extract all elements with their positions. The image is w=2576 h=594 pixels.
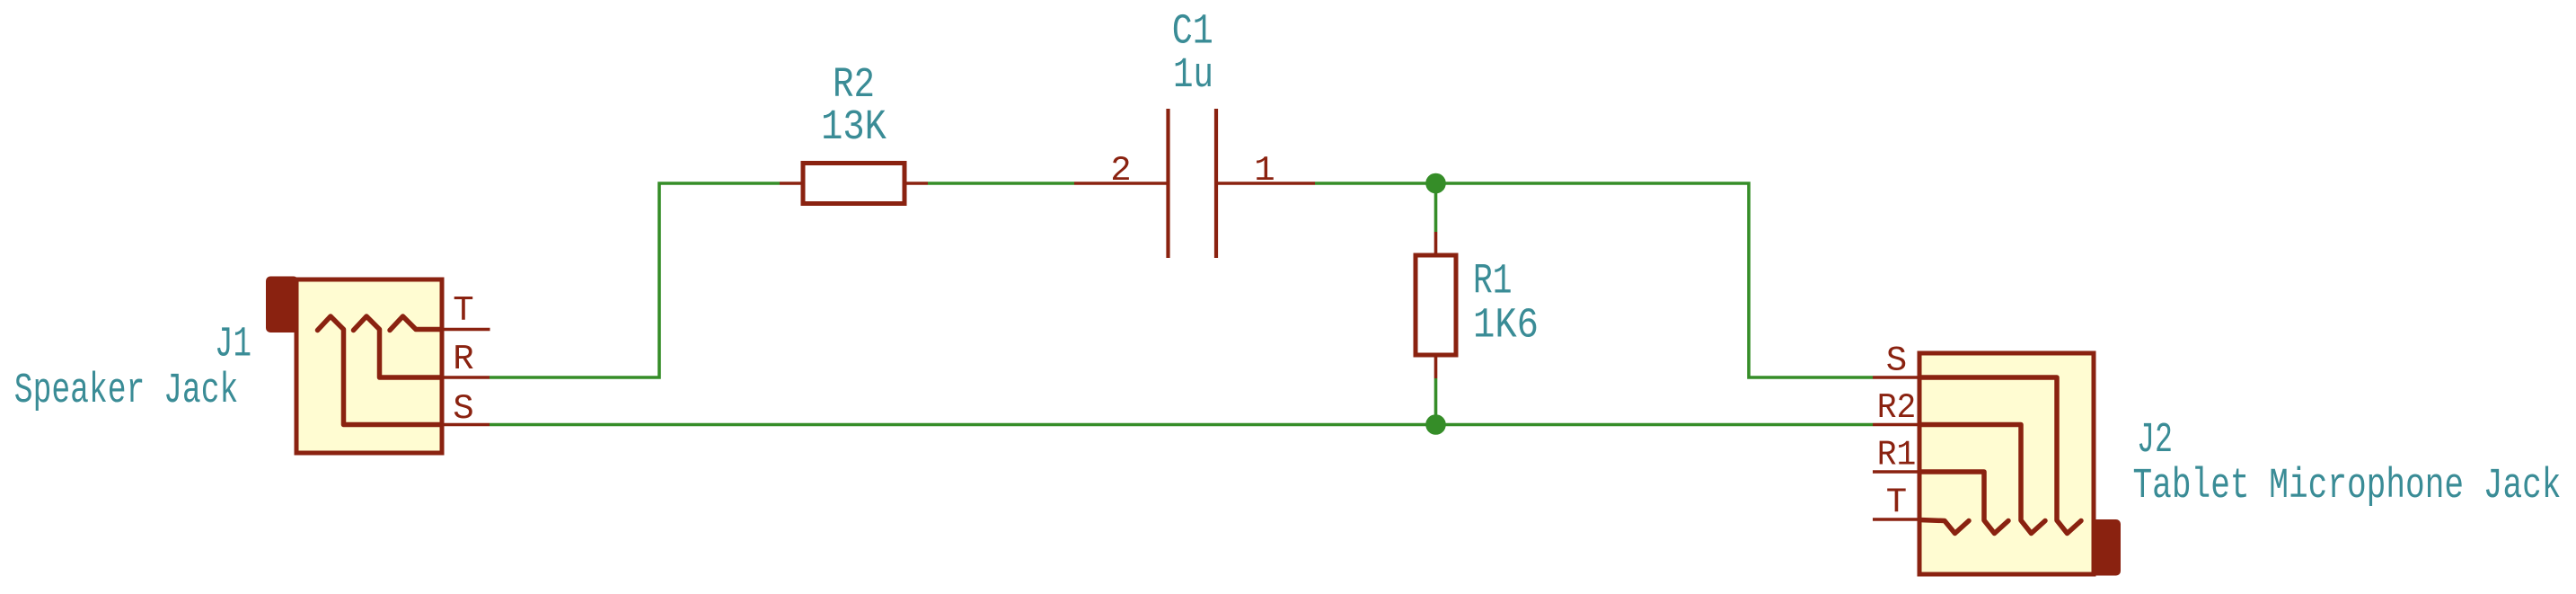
J2 body (1919, 353, 2094, 574)
J2 contact R2 chevron (1919, 425, 2045, 534)
resistor R2 (780, 164, 928, 204)
J1 pin R (442, 376, 490, 379)
svg-text:R2: R2 (833, 62, 875, 110)
svg-text:Tablet Microphone Jack: Tablet Microphone Jack (2133, 463, 2562, 510)
wire R1 bottom to junction (1434, 378, 1438, 425)
J2 contact S chevron (1919, 377, 2081, 534)
resistor R1 (1416, 232, 1456, 378)
svg-text:C1: C1 (1172, 9, 1213, 57)
J1 pin T (442, 328, 490, 332)
J2 contact T chevron (1919, 520, 1969, 534)
svg-text:Speaker Jack: Speaker Jack (14, 368, 238, 415)
J2 pin S (1873, 376, 1919, 379)
J1 contact T chevron (390, 316, 442, 331)
J1 pin S (442, 423, 490, 427)
svg-text:1u: 1u (1173, 52, 1213, 100)
J1 sleeve plug (268, 279, 296, 332)
svg-text:R1: R1 (1473, 259, 1513, 306)
J2 pin T (1873, 518, 1919, 521)
svg-text:R1: R1 (1877, 436, 1917, 475)
svg-text:R2: R2 (1877, 388, 1917, 428)
J1 body (296, 279, 442, 453)
J1 contact R chevron (354, 316, 443, 377)
connector J2 (1873, 341, 2119, 575)
svg-text:T: T (1886, 483, 1907, 522)
junction node top (1425, 173, 1446, 194)
J2 pin R1 (1873, 470, 1919, 474)
svg-text:13K: 13K (821, 104, 887, 152)
J2 sleeve plug (2094, 521, 2119, 574)
svg-text:T: T (453, 291, 473, 331)
svg-text:J2: J2 (2137, 417, 2173, 465)
svg-text:1K6: 1K6 (1473, 303, 1539, 350)
svg-text:1: 1 (1254, 151, 1275, 191)
junction node bottom (1425, 414, 1446, 435)
capacitor C1 (1074, 109, 1315, 258)
wire bottom J1.S to J2.R2 (490, 423, 1873, 427)
svg-text:S: S (1886, 341, 1907, 381)
wire junction to R1 top (1434, 183, 1438, 232)
svg-text:2: 2 (1110, 151, 1131, 191)
wire R2 to C1 (928, 182, 1074, 185)
J2 contact R1 chevron (1919, 472, 2008, 534)
svg-text:S: S (453, 389, 473, 429)
svg-text:J1: J1 (215, 322, 251, 369)
svg-text:R: R (453, 340, 473, 379)
wire C1 to junction to right corner down to J2.S (1315, 183, 1873, 377)
J1 contact S chevron (318, 316, 443, 425)
J2 pin R2 (1873, 423, 1919, 427)
connector J1 (268, 279, 490, 454)
wire J1.R to corner up to R2 (490, 183, 780, 377)
